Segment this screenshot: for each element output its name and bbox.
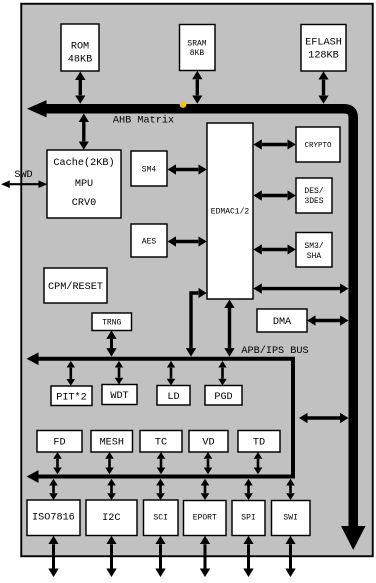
WDT bbox=[102, 385, 137, 405]
svg-text:MESH: MESH bbox=[100, 438, 124, 449]
wire: lower APB bus to SCI bbox=[159, 486, 162, 494]
svg-text:SWD: SWD bbox=[14, 170, 32, 181]
svg-text:SM4: SM4 bbox=[142, 165, 157, 174]
svg-text:SM3/: SM3/ bbox=[304, 242, 323, 251]
svg-text:EDMAC1/2: EDMAC1/2 bbox=[211, 207, 250, 216]
wire: SM4 to EDMAC bbox=[176, 168, 198, 171]
wire: SWI external pins bbox=[289, 544, 292, 568]
svg-text:EFLASH: EFLASH bbox=[305, 37, 342, 48]
svg-text:APB/IPS BUS: APB/IPS BUS bbox=[241, 345, 308, 357]
svg-text:CRYPTO: CRYPTO bbox=[304, 142, 332, 150]
wire: EDMAC to SM3/SHA bbox=[262, 248, 288, 251]
wire: EDMAC elbow to APB bus bbox=[191, 293, 198, 348]
wire: ROM to AHB bus bbox=[79, 80, 82, 95]
ROM 48KB bbox=[61, 24, 99, 71]
svg-text:ROM: ROM bbox=[71, 42, 89, 53]
svg-text:AES: AES bbox=[142, 237, 157, 246]
svg-text:MPU: MPU bbox=[75, 179, 93, 190]
wire: APB bus to WDT bbox=[118, 368, 121, 378]
DES/3DES bbox=[296, 178, 332, 213]
AHB Matrix bus bbox=[44, 109, 353, 527]
svg-text:EPORT: EPORT bbox=[193, 513, 217, 522]
svg-text:SPI: SPI bbox=[241, 513, 255, 522]
SCI bbox=[144, 500, 179, 536]
DMA bbox=[257, 309, 307, 332]
TRNG bbox=[92, 313, 132, 331]
svg-text:AHB Matrix: AHB Matrix bbox=[113, 114, 174, 126]
svg-text:CPM/RESET: CPM/RESET bbox=[48, 281, 103, 293]
wire: APB bus to PGD bbox=[221, 368, 224, 379]
PGD bbox=[205, 386, 242, 406]
FD bbox=[37, 431, 82, 453]
CRYPTO bbox=[296, 127, 340, 162]
wire: I2C external pins bbox=[110, 544, 113, 568]
wire: FD to lower APB bus bbox=[56, 459, 59, 468]
svg-text:ISO7816: ISO7816 bbox=[32, 513, 75, 524]
TD bbox=[238, 431, 280, 453]
SM3/SHA bbox=[296, 233, 332, 268]
CPM/RESET bbox=[44, 268, 107, 303]
svg-text:CRV0: CRV0 bbox=[72, 198, 96, 209]
APB/IPS bus bbox=[38, 359, 293, 477]
svg-text:SCI: SCI bbox=[153, 513, 167, 522]
svg-text:3DES: 3DES bbox=[304, 197, 323, 206]
svg-text:DES/: DES/ bbox=[304, 187, 323, 196]
wire: ISO7816 external pins bbox=[52, 544, 55, 568]
EFLASH 128KB bbox=[301, 25, 346, 72]
svg-text:8KB: 8KB bbox=[190, 49, 205, 58]
wire: APB bus to PIT*2 bbox=[70, 368, 73, 379]
wire: MESH to lower APB bus bbox=[108, 459, 111, 468]
wire: VD to lower APB bus bbox=[207, 459, 210, 468]
SPI bbox=[232, 501, 265, 536]
svg-text:Cache(2KB): Cache(2KB) bbox=[53, 157, 114, 169]
svg-text:128KB: 128KB bbox=[308, 50, 339, 61]
wire: TD to lower APB bus bbox=[257, 459, 260, 468]
svg-text:WDT: WDT bbox=[110, 391, 128, 402]
wire: SWD to CPU bbox=[10, 183, 39, 185]
wire: lower APB bus to SWI bbox=[289, 486, 292, 494]
wire: EFLASH to AHB bus bbox=[322, 80, 325, 96]
wire: AHB bus to CPU bbox=[82, 122, 85, 141]
SRAM 8KB bbox=[180, 25, 216, 71]
wire: SCI external pins bbox=[159, 544, 162, 568]
wire: APB riser to AHB vertical bus bbox=[308, 416, 341, 419]
SM4 bbox=[131, 151, 167, 186]
node: junction dot on AHB bus bbox=[180, 101, 187, 108]
MESH bbox=[91, 431, 133, 453]
wire: lower APB bus to SPI bbox=[247, 486, 250, 494]
svg-text:SWI: SWI bbox=[283, 513, 297, 522]
TC bbox=[140, 431, 182, 453]
svg-text:DMA: DMA bbox=[273, 317, 292, 328]
svg-text:TRNG: TRNG bbox=[102, 319, 121, 328]
AES bbox=[131, 224, 167, 257]
wire: lower APB bus to I2C bbox=[110, 486, 113, 494]
svg-text:TC: TC bbox=[155, 438, 167, 449]
wire: lower APB bus to ISO7816 bbox=[52, 486, 55, 494]
wire: TC to lower APB bus bbox=[160, 459, 163, 468]
CPU: Cache(2KB) MPU CRV0 bbox=[47, 150, 121, 218]
svg-text:TD: TD bbox=[253, 438, 265, 449]
VD bbox=[189, 431, 228, 453]
LD bbox=[157, 386, 190, 406]
PIT*2 bbox=[51, 386, 92, 406]
svg-text:I2C: I2C bbox=[102, 513, 120, 524]
svg-text:SRAM: SRAM bbox=[187, 40, 206, 49]
SWI bbox=[272, 501, 311, 536]
wire: APB bus to LD bbox=[170, 368, 173, 379]
svg-text:FD: FD bbox=[53, 438, 65, 449]
wire: DMA to AHB vertical bus bbox=[316, 319, 341, 322]
I2C bbox=[86, 500, 137, 536]
wire: EDMAC to DES/3DES bbox=[262, 194, 288, 197]
svg-text:PGD: PGD bbox=[214, 392, 232, 403]
EDMAC1/2 bbox=[207, 123, 253, 299]
svg-text:LD: LD bbox=[167, 392, 179, 403]
EPORT bbox=[184, 501, 227, 536]
wire: EDMAC to APB bus bbox=[228, 308, 231, 348]
wire: SRAM to AHB bus bbox=[196, 79, 199, 95]
svg-text:48KB: 48KB bbox=[68, 54, 92, 65]
wire: AES to EDMAC bbox=[176, 240, 198, 243]
wire: EDMAC to AHB vertical bus bbox=[262, 287, 340, 290]
wire: EPORT external pins bbox=[204, 544, 207, 568]
svg-text:SHA: SHA bbox=[307, 252, 322, 261]
wire: EDMAC to CRYPTO bbox=[262, 143, 288, 146]
svg-text:VD: VD bbox=[202, 438, 214, 449]
ISO7816 bbox=[27, 500, 80, 536]
wire: TRNG to APB bus bbox=[110, 339, 113, 348]
wire: SPI external pins bbox=[247, 544, 250, 568]
wire: lower APB bus to EPORT bbox=[204, 486, 207, 494]
svg-text:PIT*2: PIT*2 bbox=[56, 391, 87, 403]
